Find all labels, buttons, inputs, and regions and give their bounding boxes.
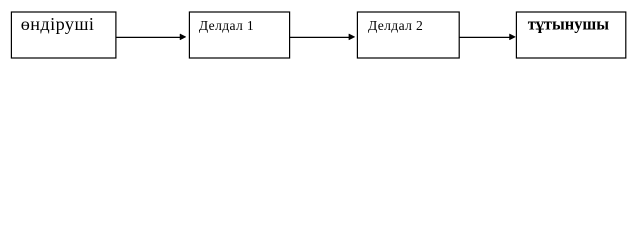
- box consumer (тұтынушы, bold): [516, 12, 625, 58]
- box middleman 2 (Делдал 2): [357, 12, 459, 58]
- box producer (өндіруші): [11, 12, 116, 58]
- svg-text:Делдал 1: Делдал 1: [199, 18, 254, 33]
- svg-text:Делдал 2: Делдал 2: [368, 18, 423, 33]
- box middleman 1 (Делдал 1): [189, 12, 289, 58]
- wire arrow 2 (middleman 1 to middleman 2): [290, 34, 355, 40]
- wire arrow 1 (producer to middleman 1): [116, 34, 186, 40]
- svg-text:өндіруші: өндіруші: [21, 14, 95, 34]
- wire arrow 3 (middleman 2 to consumer): [459, 34, 515, 40]
- svg-text:тұтынушы: тұтынушы: [528, 14, 610, 33]
